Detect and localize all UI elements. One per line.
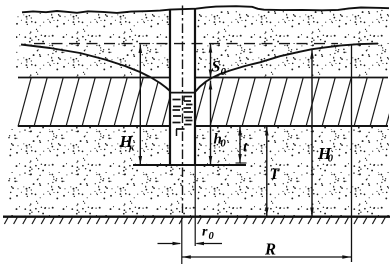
depression curve left branch xyxy=(21,45,170,92)
R extension line (right) xyxy=(351,44,353,262)
svg-text:T: T xyxy=(270,166,281,183)
svg-text:r: r xyxy=(202,225,208,240)
dimension line Hk xyxy=(139,45,141,166)
aquitard hatching left of well xyxy=(2,77,391,127)
lower aquifer stipple fill xyxy=(8,127,389,217)
well interior (white) xyxy=(171,9,194,166)
svg-text:0: 0 xyxy=(209,231,215,242)
svg-text:0: 0 xyxy=(221,139,227,150)
well bottom reference line xyxy=(133,164,246,166)
aquitard hatching right of well xyxy=(2,77,391,127)
svg-text:0: 0 xyxy=(328,154,334,165)
dimension line t xyxy=(239,127,241,164)
well axis extension below base xyxy=(181,217,183,265)
ground surface line xyxy=(22,6,389,13)
dimension line H0 xyxy=(311,50,313,217)
dimension line S0 xyxy=(210,44,212,79)
water level inside well xyxy=(171,92,194,94)
well wall extension line xyxy=(194,166,196,246)
svg-text:к: к xyxy=(129,143,135,154)
base hatching ticks xyxy=(4,218,385,225)
well axis center line xyxy=(182,6,184,217)
dimension R xyxy=(182,256,351,258)
svg-text:S: S xyxy=(212,59,221,76)
dimension line T xyxy=(266,127,268,217)
well casing left wall xyxy=(169,10,171,166)
t bottom tick xyxy=(236,162,247,164)
dimension r0 xyxy=(158,243,181,245)
svg-text:R: R xyxy=(264,240,276,259)
aquitard top boundary line xyxy=(18,77,388,79)
svg-text:0: 0 xyxy=(221,66,227,78)
upper soil layer stipple fill xyxy=(16,10,389,78)
aquitard bottom boundary line xyxy=(18,125,388,127)
depression curve right branch xyxy=(196,44,379,92)
well casing right wall xyxy=(194,9,196,165)
well screen hatch marks xyxy=(173,97,194,137)
impermeable base line xyxy=(3,216,390,218)
static water table dashed line xyxy=(34,43,338,45)
dimension line h0 xyxy=(210,81,212,166)
